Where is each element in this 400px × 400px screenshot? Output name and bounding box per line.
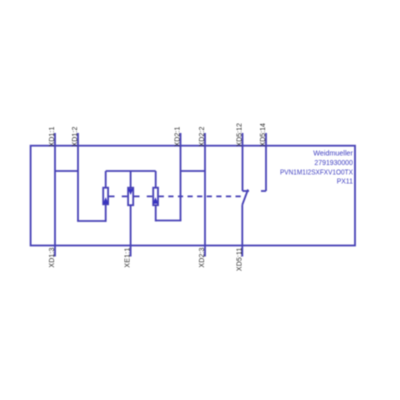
terminal XD1:1 / XD1:3 through-wire [54,133,56,257]
actuator dashed link arrester F1 to F2 [109,195,127,197]
svg-text:XD1:1: XD1:1 [49,127,56,147]
svg-text:XD2:1: XD2:1 [174,127,181,147]
svg-text:XD1:2: XD1:2 [72,127,79,147]
svg-text:XD1:3: XD1:3 [49,248,56,268]
wire arrester F3 top lead [155,171,157,187]
wire arrester F2 top lead [130,171,132,187]
svg-text:XD5:11: XD5:11 [236,248,243,272]
terminal XE1:1 (arrester F2 bottom lead) [130,206,132,257]
wire arrester F1 bottom lead [105,205,107,222]
svg-text:PVN1M1I2SXFXV1O0TX: PVN1M1I2SXFXV1O0TX [280,169,353,176]
wire arrester F3 bottom to XD2:1 [156,220,182,222]
wire XD1:2 to arrester F1 bottom [77,220,106,222]
terminal XD2:1 [180,133,182,221]
terminal XD5:12 [242,133,244,191]
arrester F1 arrow (up) [103,197,109,203]
switch S1 moving lever [242,190,248,205]
arrester F1 body [103,188,108,205]
switch S1 open contact tick XD5:14 [261,190,266,192]
arrester F2 arrow (down) [128,189,134,195]
terminal XD5:11 [241,205,243,257]
arrester F3 arrow (up) [153,197,159,203]
terminal XD5:14 [265,133,267,191]
svg-text:XD5:12: XD5:12 [236,123,243,147]
wire arrester F1 top lead [105,171,107,187]
wire arrester F3 bottom lead [155,206,157,221]
svg-text:2791930000: 2791930000 [314,160,353,167]
wire jumper XD1:1 to XD1:2 [55,170,78,172]
svg-text:XD2:3: XD2:3 [199,248,206,268]
svg-text:XD2:2: XD2:2 [199,127,206,147]
terminal XD2:2 / XD2:3 through-wire [204,133,206,257]
arrester F2 body [128,188,133,206]
arrester F3 body [153,188,158,206]
wire jumper XD2:1 to XD2:2 [181,170,206,172]
actuator dashed link arrester F3 to switch S1 [159,195,241,197]
switch S1 fixed contact tick [243,190,250,192]
enclosure box [31,146,355,246]
svg-text:Weidmueller: Weidmueller [313,150,353,157]
svg-text:XE1:1: XE1:1 [124,248,131,268]
svg-text:PX11: PX11 [337,179,353,186]
terminal XD1:2 [77,133,79,221]
actuator dashed link arrester F2 to F3 [134,195,152,197]
wire top bus connecting arresters [106,170,156,172]
svg-text:XD5:14: XD5:14 [260,123,267,147]
